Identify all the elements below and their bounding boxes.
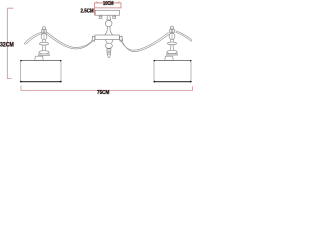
- svg-text:10CM: 10CM: [103, 1, 114, 7]
- svg-text:32CM: 32CM: [0, 42, 14, 49]
- svg-text:75CM: 75CM: [97, 90, 109, 96]
- svg-text:2.5CM: 2.5CM: [81, 8, 94, 14]
